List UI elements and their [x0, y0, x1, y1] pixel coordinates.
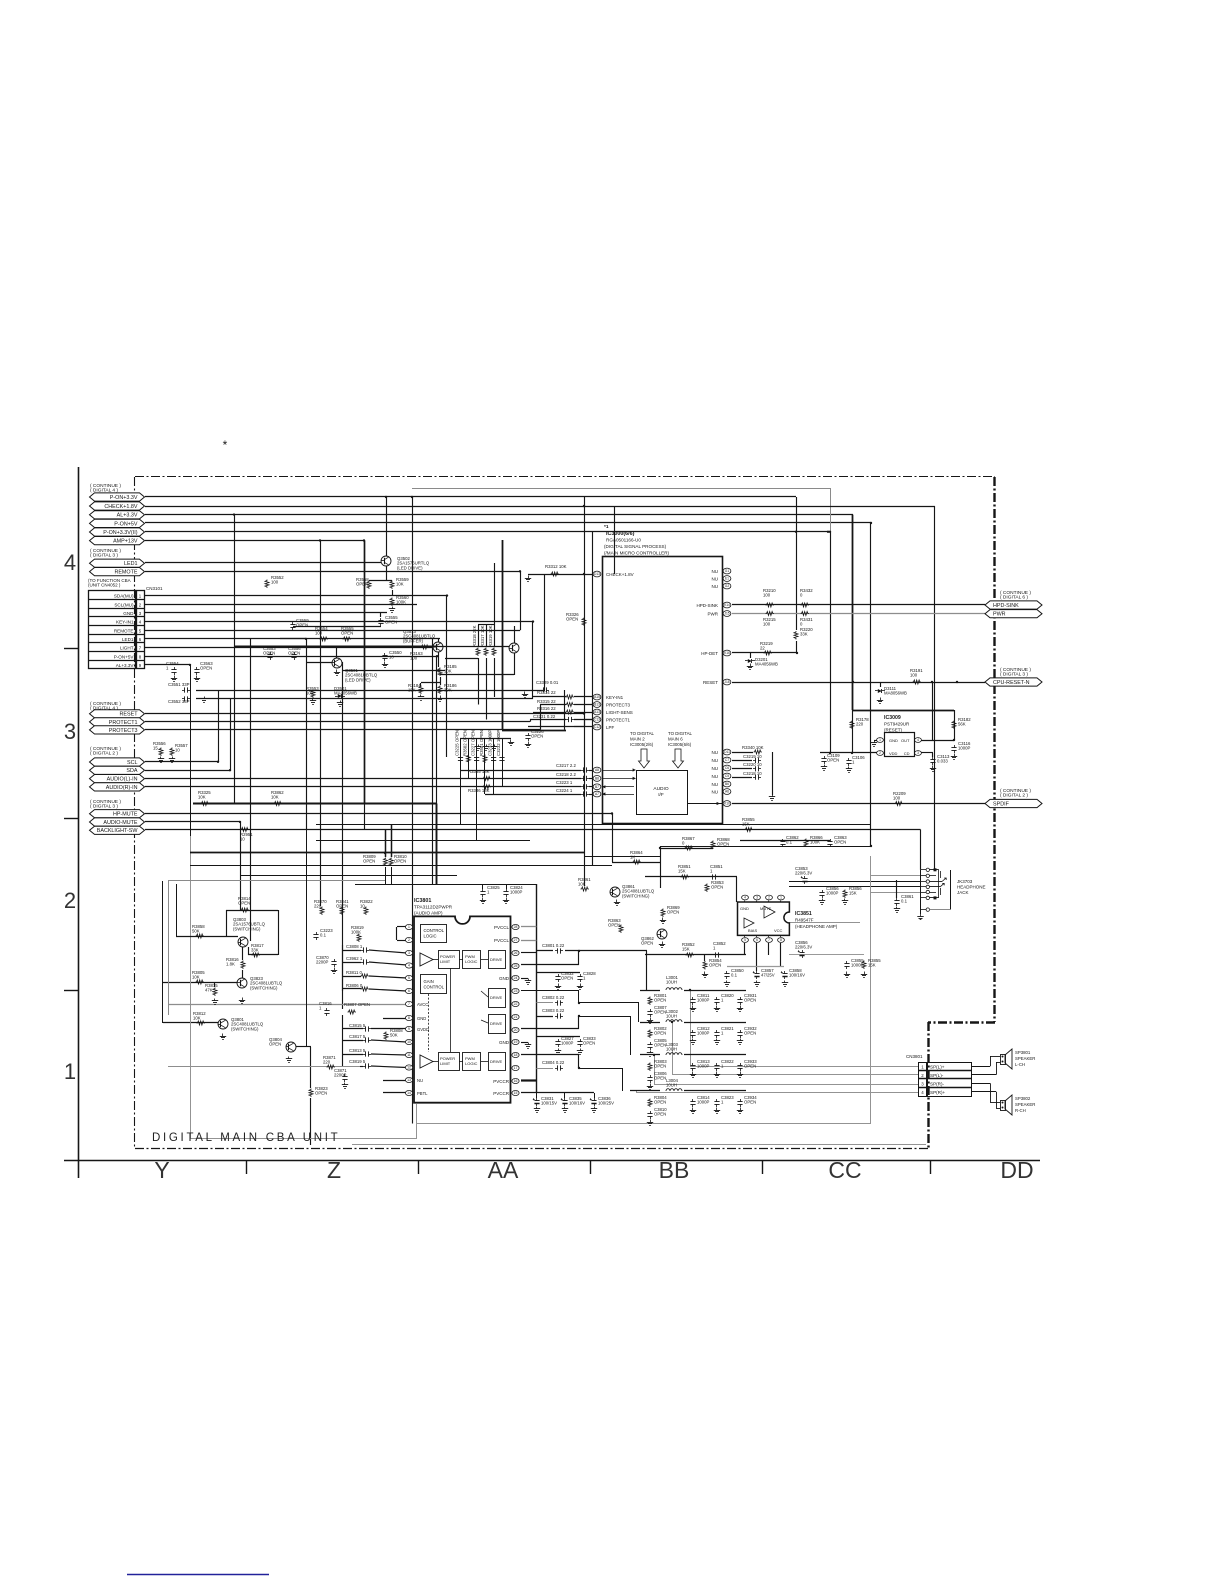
svg-text:TPA3112D2PWPR: TPA3112D2PWPR [414, 905, 453, 910]
wire thick bus drop [436, 804, 438, 885]
resistor R3184 [408, 683, 423, 694]
ic IC3851 amp triangle top [764, 906, 775, 918]
svg-text:PBTL: PBTL [417, 1091, 428, 1096]
svg-text:OPEN: OPEN [269, 1042, 281, 1047]
svg-text:C3802 0.22: C3802 0.22 [542, 995, 565, 1000]
capacitor C3836 [590, 1096, 614, 1106]
ground capcol rail [508, 740, 514, 746]
wire ecap stub1 [536, 1093, 538, 1098]
wire x176 riser [176, 884, 178, 936]
ground Lgrid1b [714, 1006, 720, 1012]
svg-text:AUDIO-MUTE: AUDIO-MUTE [103, 820, 138, 826]
wire capcol d3 ext [476, 787, 478, 841]
svg-text:10: 10 [407, 1040, 411, 1044]
capacitor C3827 [555, 1036, 574, 1047]
transistor Q3803 [233, 917, 266, 947]
svg-text:AL+3.3V: AL+3.3V [116, 663, 135, 668]
junction node 5 [436, 655, 438, 657]
svg-text:8: 8 [408, 1016, 410, 1020]
resistor R3811 [346, 970, 369, 978]
ic IC3801 pin 24 [499, 975, 519, 981]
svg-text:R3502 OPEN: R3502 OPEN [462, 730, 467, 756]
svg-text:1000P: 1000P [958, 746, 971, 751]
wire pin12 stub [371, 1066, 407, 1068]
svg-text:(AUDIO AMP): (AUDIO AMP) [414, 911, 443, 916]
row label 3 [64, 719, 76, 744]
ground Q3501 [334, 670, 340, 676]
wire r3815 drop [214, 982, 216, 987]
svg-text:MAIN 2: MAIN 2 [630, 737, 645, 742]
svg-text:R3336 18K: R3336 18K [468, 788, 490, 793]
wire pin11 feed [343, 1054, 363, 1056]
wire thick bus horizontal [193, 803, 437, 805]
board boundary chain right (bold) [993, 477, 995, 1022]
svg-text:C12: C12 [594, 725, 600, 729]
svg-text:Z: Z [327, 1157, 341, 1183]
svg-text:1.8K: 1.8K [226, 962, 235, 967]
wire sp row4 [636, 1092, 918, 1094]
ic IC3000 pin A6 [712, 789, 731, 795]
ground Q3801 [220, 1034, 226, 1040]
svg-text:(LED DRIVE): (LED DRIVE) [345, 677, 371, 682]
capacitor C3224 [556, 788, 589, 797]
junction node 34 [653, 1054, 655, 1056]
wire vertical x250 [250, 639, 252, 909]
connector JK3703 headphone jack [917, 868, 951, 919]
net label (CONTINUE DIGITAL 6) [1000, 590, 1031, 601]
wire CN3101 KEY-IN1 [144, 621, 533, 623]
svg-text:6: 6 [408, 989, 410, 993]
svg-text:MA4056WB: MA4056WB [334, 691, 357, 696]
svg-text:R3316 22: R3316 22 [537, 706, 556, 711]
resistor R3808 [384, 1028, 403, 1040]
resistor R3804 [648, 1095, 667, 1107]
wire pin7 stub (avcc) [370, 1004, 407, 1006]
wire ecap stub3 [594, 1093, 596, 1098]
wire RESET rail [145, 713, 584, 715]
ground R3186 [437, 696, 443, 702]
wire capcol d5 [493, 739, 495, 794]
resistor R3806 [346, 983, 369, 991]
svg-text:22: 22 [514, 1002, 518, 1006]
svg-text:23: 23 [514, 989, 518, 993]
wire pin12 feed [360, 1066, 363, 1068]
net AMP+13V [90, 537, 145, 545]
wire CN3801 row2 to speaker [972, 1062, 1000, 1075]
wire audio row B8 [589, 778, 597, 780]
ic IC3000 pin K14 [696, 602, 730, 608]
wire jack gray row2 [871, 875, 921, 877]
wire q3503 emitter row [440, 674, 514, 676]
svg-text:25: 25 [514, 964, 518, 968]
svg-text:RGA0501166-U0: RGA0501166-U0 [606, 538, 641, 543]
svg-text:8: 8 [780, 938, 782, 942]
ground nu caps [769, 795, 775, 801]
frame tick left 3/2 [64, 818, 79, 820]
ground rbus1 [475, 745, 481, 751]
wire mid row 670 [343, 670, 445, 672]
ic IC3801 pin 13 [405, 1077, 412, 1082]
resistor R3315 [537, 699, 574, 707]
wire capcol d1 ext [460, 770, 462, 824]
ground R3856 [842, 899, 848, 905]
capacitor C3556 [288, 646, 301, 660]
capacitor C3856e [795, 940, 812, 958]
wire buffer row [280, 638, 440, 640]
resistor R3553 [306, 686, 319, 698]
junction node 12 [217, 761, 219, 763]
wire left col riser1 [342, 945, 344, 991]
wire pin10 stub [371, 1040, 407, 1042]
wire r3816 bottom [242, 970, 244, 978]
wire R3809 col bot [385, 867, 387, 884]
junction node 19 [532, 620, 534, 622]
inductor L3004 [666, 1078, 682, 1091]
net LED1 [90, 559, 145, 567]
svg-text:HP-DET: HP-DET [701, 651, 718, 656]
svg-text:AL+3.3V: AL+3.3V [117, 513, 138, 519]
ic IC3000 pin D11 [712, 749, 731, 755]
ground D3201 [747, 664, 753, 670]
capacitor C3858 [781, 968, 805, 979]
wire P-ON+3.3V(II) rail [145, 531, 830, 533]
ground R3869 [660, 918, 666, 924]
wire P-ON+3.3V drop x796 [796, 497, 798, 630]
resistor R3819 [351, 925, 364, 942]
ic IC3009 pin 1 GND [877, 738, 898, 743]
svg-text:GAIN: GAIN [424, 979, 434, 984]
wire hp r3864 row [612, 862, 660, 864]
wire net3 drop [630, 1016, 632, 1055]
resistor R3868 [711, 837, 730, 849]
wire R3810 col top [391, 824, 393, 857]
capacitor C3820 [714, 993, 734, 1005]
wire L grid rail3b [684, 1054, 746, 1056]
capacitor C3803 [542, 1008, 565, 1019]
ic IC3801 pin 1 [405, 924, 412, 929]
wire jack gray row5 [871, 892, 921, 894]
wire hp gray row967 [727, 966, 784, 968]
ground D3111 [877, 698, 883, 704]
wire pvccl stub27 [521, 940, 536, 942]
junction node 24 [953, 739, 955, 741]
ic IC3000 pin G1 [712, 568, 731, 574]
wire pvccl stub28 [521, 926, 536, 928]
junction node 26 [583, 573, 585, 575]
junction node 10 [827, 531, 829, 533]
wire pin3 feed [343, 950, 361, 952]
wire q3503 collector [514, 626, 516, 643]
wire q3501 up [336, 647, 338, 658]
wire CN3101 SDA(MU) [144, 595, 447, 597]
ic IC3851 title [795, 911, 838, 929]
transistor Q3501 [332, 658, 378, 682]
board boundary chain jog horizontal (bold) [928, 1021, 995, 1023]
capacitor C3811 [690, 993, 710, 1005]
ic IC3801 pin 7 [405, 1001, 412, 1006]
capacitor C3871 [334, 1068, 348, 1082]
wire vertical x584 long [584, 497, 586, 886]
ic IC3000 pin D13 CHECK+1.8V [593, 571, 634, 577]
resistor R3852 [682, 942, 695, 957]
ic IC3801 drive 2 [489, 989, 506, 1008]
ground pin24 [525, 979, 531, 985]
frame tick left 4/3 [64, 648, 79, 650]
svg-text:100/15V: 100/15V [541, 1101, 557, 1106]
svg-text:AMP+13V: AMP+13V [113, 539, 138, 545]
svg-text:0.1: 0.1 [731, 973, 738, 978]
svg-text:R3312 10K: R3312 10K [545, 564, 567, 569]
wire c3801 row [536, 950, 553, 952]
svg-text:(BUFFER): (BUFFER) [403, 638, 424, 643]
svg-text:C3218 2.2: C3218 2.2 [556, 772, 576, 777]
ic IC3801 pin 22 [512, 1001, 519, 1006]
svg-text:B6: B6 [725, 782, 729, 786]
svg-text:JK3703: JK3703 [957, 879, 973, 884]
wire net2 drop [638, 1003, 640, 1022]
capacitor C3552 [168, 696, 190, 704]
svg-text:OPEN: OPEN [654, 1031, 666, 1036]
wire pin23 row [521, 990, 579, 992]
ground C3113 [930, 766, 936, 772]
ground Q3823 [239, 998, 245, 1004]
svg-text:NU: NU [712, 569, 719, 574]
wire AL33 riser [190, 665, 192, 836]
svg-text:R3335 18K: R3335 18K [468, 769, 490, 774]
svg-text:12: 12 [407, 1066, 411, 1070]
svg-text:1: 1 [64, 1059, 76, 1084]
svg-text:C3231 0.22: C3231 0.22 [533, 714, 556, 719]
ic IC3000 pin A15 KEY-IN1 [593, 694, 623, 700]
wire net1 drop [646, 951, 648, 990]
wire vertical x306 [306, 639, 308, 830]
svg-text:OPEN: OPEN [341, 631, 353, 636]
wire audio feed A7 [485, 794, 581, 796]
transistor Q3861 [610, 884, 655, 898]
wire SCL rail [145, 761, 218, 763]
capacitor C3861 [894, 894, 914, 906]
capacitor C3813b [690, 1059, 710, 1071]
ic IC3801 pin 25 [512, 963, 519, 968]
ic IC3801 pin13 label [417, 1078, 423, 1083]
capacitor C3563 [194, 661, 213, 675]
svg-text:4: 4 [917, 738, 919, 742]
wire r3854 drop [704, 955, 706, 961]
svg-text:J15: J15 [724, 612, 729, 616]
svg-text:Y: Y [154, 1157, 169, 1183]
svg-text:10K: 10K [198, 795, 206, 800]
transistor Q3504 [509, 643, 519, 653]
wire drop x830 [830, 532, 832, 753]
wire buffer row2 thick [234, 646, 437, 648]
transistor Q3503 [403, 629, 443, 652]
svg-text:1: 1 [408, 925, 410, 929]
net SCL [90, 758, 145, 766]
ic IC3801 internal bus [429, 968, 451, 1052]
wire PROTECT1 riser [530, 720, 532, 722]
wire c3802 row [536, 1002, 553, 1004]
ic IC3801 pwm logic 1 [463, 951, 481, 969]
svg-text:C3962 1: C3962 1 [346, 956, 363, 961]
svg-text:C3808 1: C3808 1 [346, 944, 363, 949]
ground Q3804 [286, 1057, 292, 1063]
wire CN3801 row1 to speaker [972, 1056, 1000, 1067]
resistor R3807 [344, 1002, 370, 1014]
board boundary chain bottom [135, 1148, 928, 1150]
transistor Q3801 [218, 1017, 264, 1031]
svg-text:4: 4 [64, 550, 76, 575]
board boundary chain jog vertical (bold) [927, 1022, 929, 1149]
ground C3831 [534, 1107, 540, 1113]
wire sp row1 [690, 1066, 918, 1068]
resistor R3325 [198, 790, 211, 806]
svg-text:1000P: 1000P [697, 1064, 710, 1069]
svg-text:100: 100 [893, 796, 901, 801]
wire vertical x320 [320, 541, 322, 907]
wire pin14 stub [383, 1092, 407, 1094]
ic IC3000 pin E1 [712, 576, 731, 582]
connector CN3101 name [146, 586, 163, 591]
svg-text:R3317 10K: R3317 10K [480, 625, 485, 647]
svg-text:OPEN: OPEN [654, 1064, 666, 1069]
wire pin9 feed [343, 1028, 363, 1030]
junction node 23 [829, 752, 831, 754]
wire thick row 8525 [190, 852, 584, 854]
ground Q3861 [614, 900, 620, 906]
svg-text:GND: GND [740, 906, 749, 911]
svg-text:DD: DD [1000, 1157, 1033, 1183]
wire x306 ext [306, 830, 308, 1046]
net label (CONTINUE DIGITAL 3) low [90, 799, 121, 810]
wire r3184 row [421, 682, 440, 684]
resistor R3318 [472, 625, 480, 656]
svg-text:10UH: 10UH [666, 1047, 677, 1052]
svg-text:15: 15 [514, 1091, 518, 1095]
svg-text:R3340 10K: R3340 10K [742, 745, 764, 750]
wire c3804 tie [578, 1054, 580, 1068]
svg-text:SP(L)-: SP(L)- [930, 1073, 944, 1078]
ground C3832 [555, 984, 561, 990]
wire CN3101 LIGHT [144, 647, 433, 649]
svg-text:GVDD: GVDD [417, 1027, 429, 1032]
junction node 13 [229, 769, 231, 771]
wire row 846 [660, 846, 871, 848]
svg-text:56K: 56K [958, 722, 966, 727]
wire audio feed A8 [461, 770, 582, 772]
svg-text:NU: NU [712, 774, 719, 779]
svg-text:A13: A13 [594, 710, 600, 714]
svg-text:D13: D13 [594, 572, 600, 576]
capacitor C3810 [647, 1107, 667, 1119]
frame bottom tick Z/AA [418, 1160, 420, 1174]
wire sp row1 drop [690, 990, 692, 1066]
ground R3184 [418, 695, 424, 701]
junction node 17 [446, 594, 448, 596]
wire vertical x412 [412, 497, 414, 1124]
connector CN3101 [89, 591, 145, 669]
wire capcol d6 [502, 739, 504, 787]
ground C3825 [480, 898, 486, 904]
svg-text:R3811 0: R3811 0 [346, 970, 363, 975]
resistor R3163 [410, 645, 429, 661]
ground rbus2 [483, 745, 489, 751]
speaker SP3802 label [1015, 1096, 1035, 1113]
svg-text:GND: GND [889, 738, 898, 743]
ground C3116 [951, 754, 957, 760]
resistor R3809 [363, 854, 388, 866]
resistor R3316 [537, 706, 574, 714]
svg-text:NU: NU [712, 584, 719, 589]
wire rbus x486 [486, 625, 488, 646]
svg-text:3: 3 [756, 896, 758, 900]
svg-text:OPEN: OPEN [654, 1076, 666, 1081]
ground R3556 [158, 757, 164, 763]
svg-text:OPEN: OPEN [394, 859, 406, 864]
net CPU-RESET-N out [985, 678, 1042, 686]
wire net2 ext [579, 1002, 639, 1004]
junction node 29 [578, 1002, 580, 1004]
junction node 38 [852, 681, 854, 683]
resistor R3340 [742, 745, 764, 754]
wire pin6 feed [343, 988, 361, 990]
svg-text:3: 3 [64, 719, 76, 744]
wire P-ON+5V drop [870, 523, 872, 846]
ground C3563 [194, 676, 200, 682]
wire r3823 col [310, 1047, 312, 1088]
svg-text:( DIGITAL 3 ): ( DIGITAL 3 ) [90, 804, 118, 810]
wire reset to IC3009 [932, 682, 934, 740]
svg-text:R3807 OPEN: R3807 OPEN [344, 1002, 370, 1007]
svg-text:10K: 10K [271, 795, 279, 800]
capacitor C3855 [844, 958, 864, 969]
svg-text:15K: 15K [868, 963, 876, 968]
wire c3803 tie [578, 1016, 580, 1029]
svg-text:KEY-IN1: KEY-IN1 [116, 620, 134, 625]
wire pin18 row [521, 1054, 579, 1056]
svg-text:NU: NU [712, 766, 719, 771]
capacitor C3822 [714, 1059, 734, 1071]
svg-text:4: 4 [744, 896, 746, 900]
wire vertical x935 hp-det [934, 506, 936, 870]
svg-text:G2: G2 [725, 584, 730, 588]
ground Lgrid3c [737, 1072, 743, 1078]
wire pin15 row [521, 1092, 594, 1094]
svg-text:OPEN: OPEN [717, 842, 729, 847]
capacitor C3219 [743, 754, 762, 763]
ic IC3851 label MUTE [760, 906, 772, 911]
wire row 8755 [240, 875, 457, 877]
svg-text:(SWITCHING): (SWITCHING) [233, 926, 261, 931]
wire vertical x343 [342, 662, 344, 1009]
capacitor C3818 [349, 1023, 371, 1032]
col label Y [154, 1157, 169, 1183]
svg-text:OPEN: OPEN [641, 941, 653, 946]
row label 4 [64, 550, 76, 575]
wire q3803 row [176, 936, 238, 938]
speaker SP3802 [1001, 1095, 1013, 1115]
wire hp pin riser1 [736, 877, 738, 902]
ic IC3000 body [603, 557, 723, 824]
transistor Q3862 [641, 929, 667, 946]
svg-text:220: 220 [856, 722, 864, 727]
svg-text:C3232 1000P: C3232 1000P [496, 730, 501, 756]
wire c3824 drop [506, 884, 508, 889]
wire L grid rail2b [684, 1022, 746, 1024]
junction node 1 [233, 513, 235, 515]
net label (CONTINUE DIGITAL 3) [90, 548, 121, 559]
ground C3856 [819, 899, 825, 905]
capacitor C3329 [536, 680, 559, 693]
